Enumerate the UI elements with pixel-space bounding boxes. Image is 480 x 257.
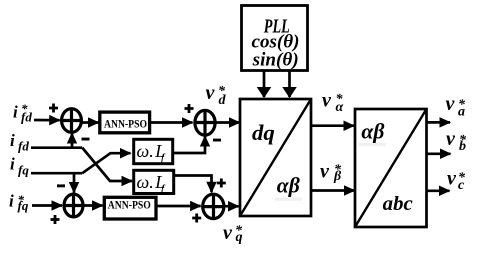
svg-text:dq: dq (252, 120, 275, 145)
svg-text:i: i (10, 131, 15, 150)
svg-text:d: d (219, 93, 227, 108)
svg-text:ANN-PSO: ANN-PSO (104, 116, 147, 130)
svg-text:v: v (223, 222, 233, 244)
svg-text:v: v (322, 90, 332, 112)
svg-text:β: β (333, 169, 342, 184)
svg-text:v: v (447, 168, 457, 190)
svg-text:αβ: αβ (361, 118, 385, 143)
svg-text:αβ: αβ (277, 172, 301, 197)
svg-text:fd: fd (21, 110, 32, 125)
svg-text:q: q (236, 230, 243, 245)
svg-text:fd: fd (18, 139, 29, 154)
svg-text:a: a (458, 105, 465, 120)
svg-text:i: i (13, 103, 18, 122)
svg-text:v: v (446, 93, 456, 115)
svg-text:fq: fq (18, 198, 29, 213)
svg-text:i: i (10, 155, 15, 174)
svg-text:sin(θ): sin(θ) (252, 49, 299, 70)
svg-text:v: v (206, 82, 216, 104)
svg-text:b: b (459, 139, 466, 154)
svg-text:fq: fq (18, 163, 29, 178)
svg-text:abc: abc (383, 193, 413, 215)
svg-text:v: v (446, 128, 456, 150)
svg-text:i: i (9, 192, 14, 211)
svg-text:c: c (458, 178, 465, 193)
svg-text:α: α (336, 100, 344, 115)
svg-text:v: v (320, 161, 330, 183)
svg-text:ANN-PSO: ANN-PSO (108, 198, 151, 212)
